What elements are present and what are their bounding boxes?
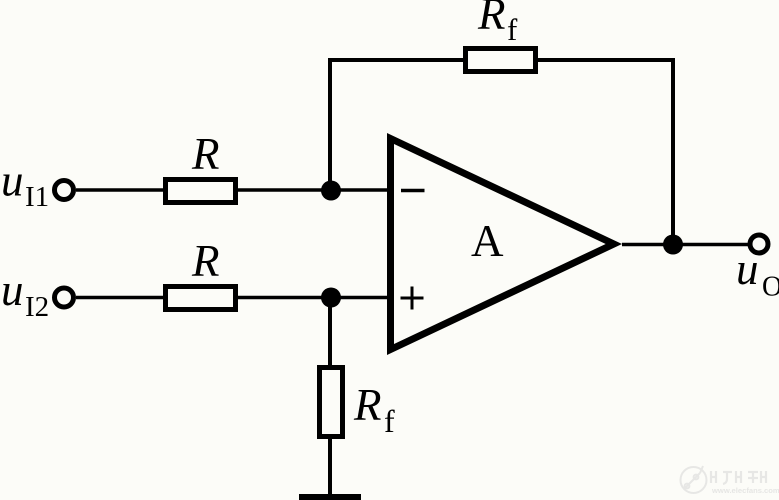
- svg-text:u: u: [1, 265, 24, 315]
- svg-text:R: R: [191, 129, 220, 179]
- svg-text:u: u: [736, 244, 759, 294]
- svg-text:I1: I1: [25, 181, 49, 213]
- svg-text:A: A: [471, 216, 504, 266]
- svg-text:f: f: [507, 12, 518, 47]
- svg-text:O: O: [762, 272, 779, 303]
- svg-text:R: R: [191, 236, 220, 286]
- svg-text:I2: I2: [25, 291, 49, 323]
- svg-text:www.elecfans.com: www.elecfans.com: [711, 486, 779, 495]
- svg-text:R: R: [477, 0, 506, 39]
- svg-text:u: u: [1, 156, 24, 206]
- svg-text:R: R: [353, 380, 382, 430]
- svg-text:f: f: [384, 403, 395, 439]
